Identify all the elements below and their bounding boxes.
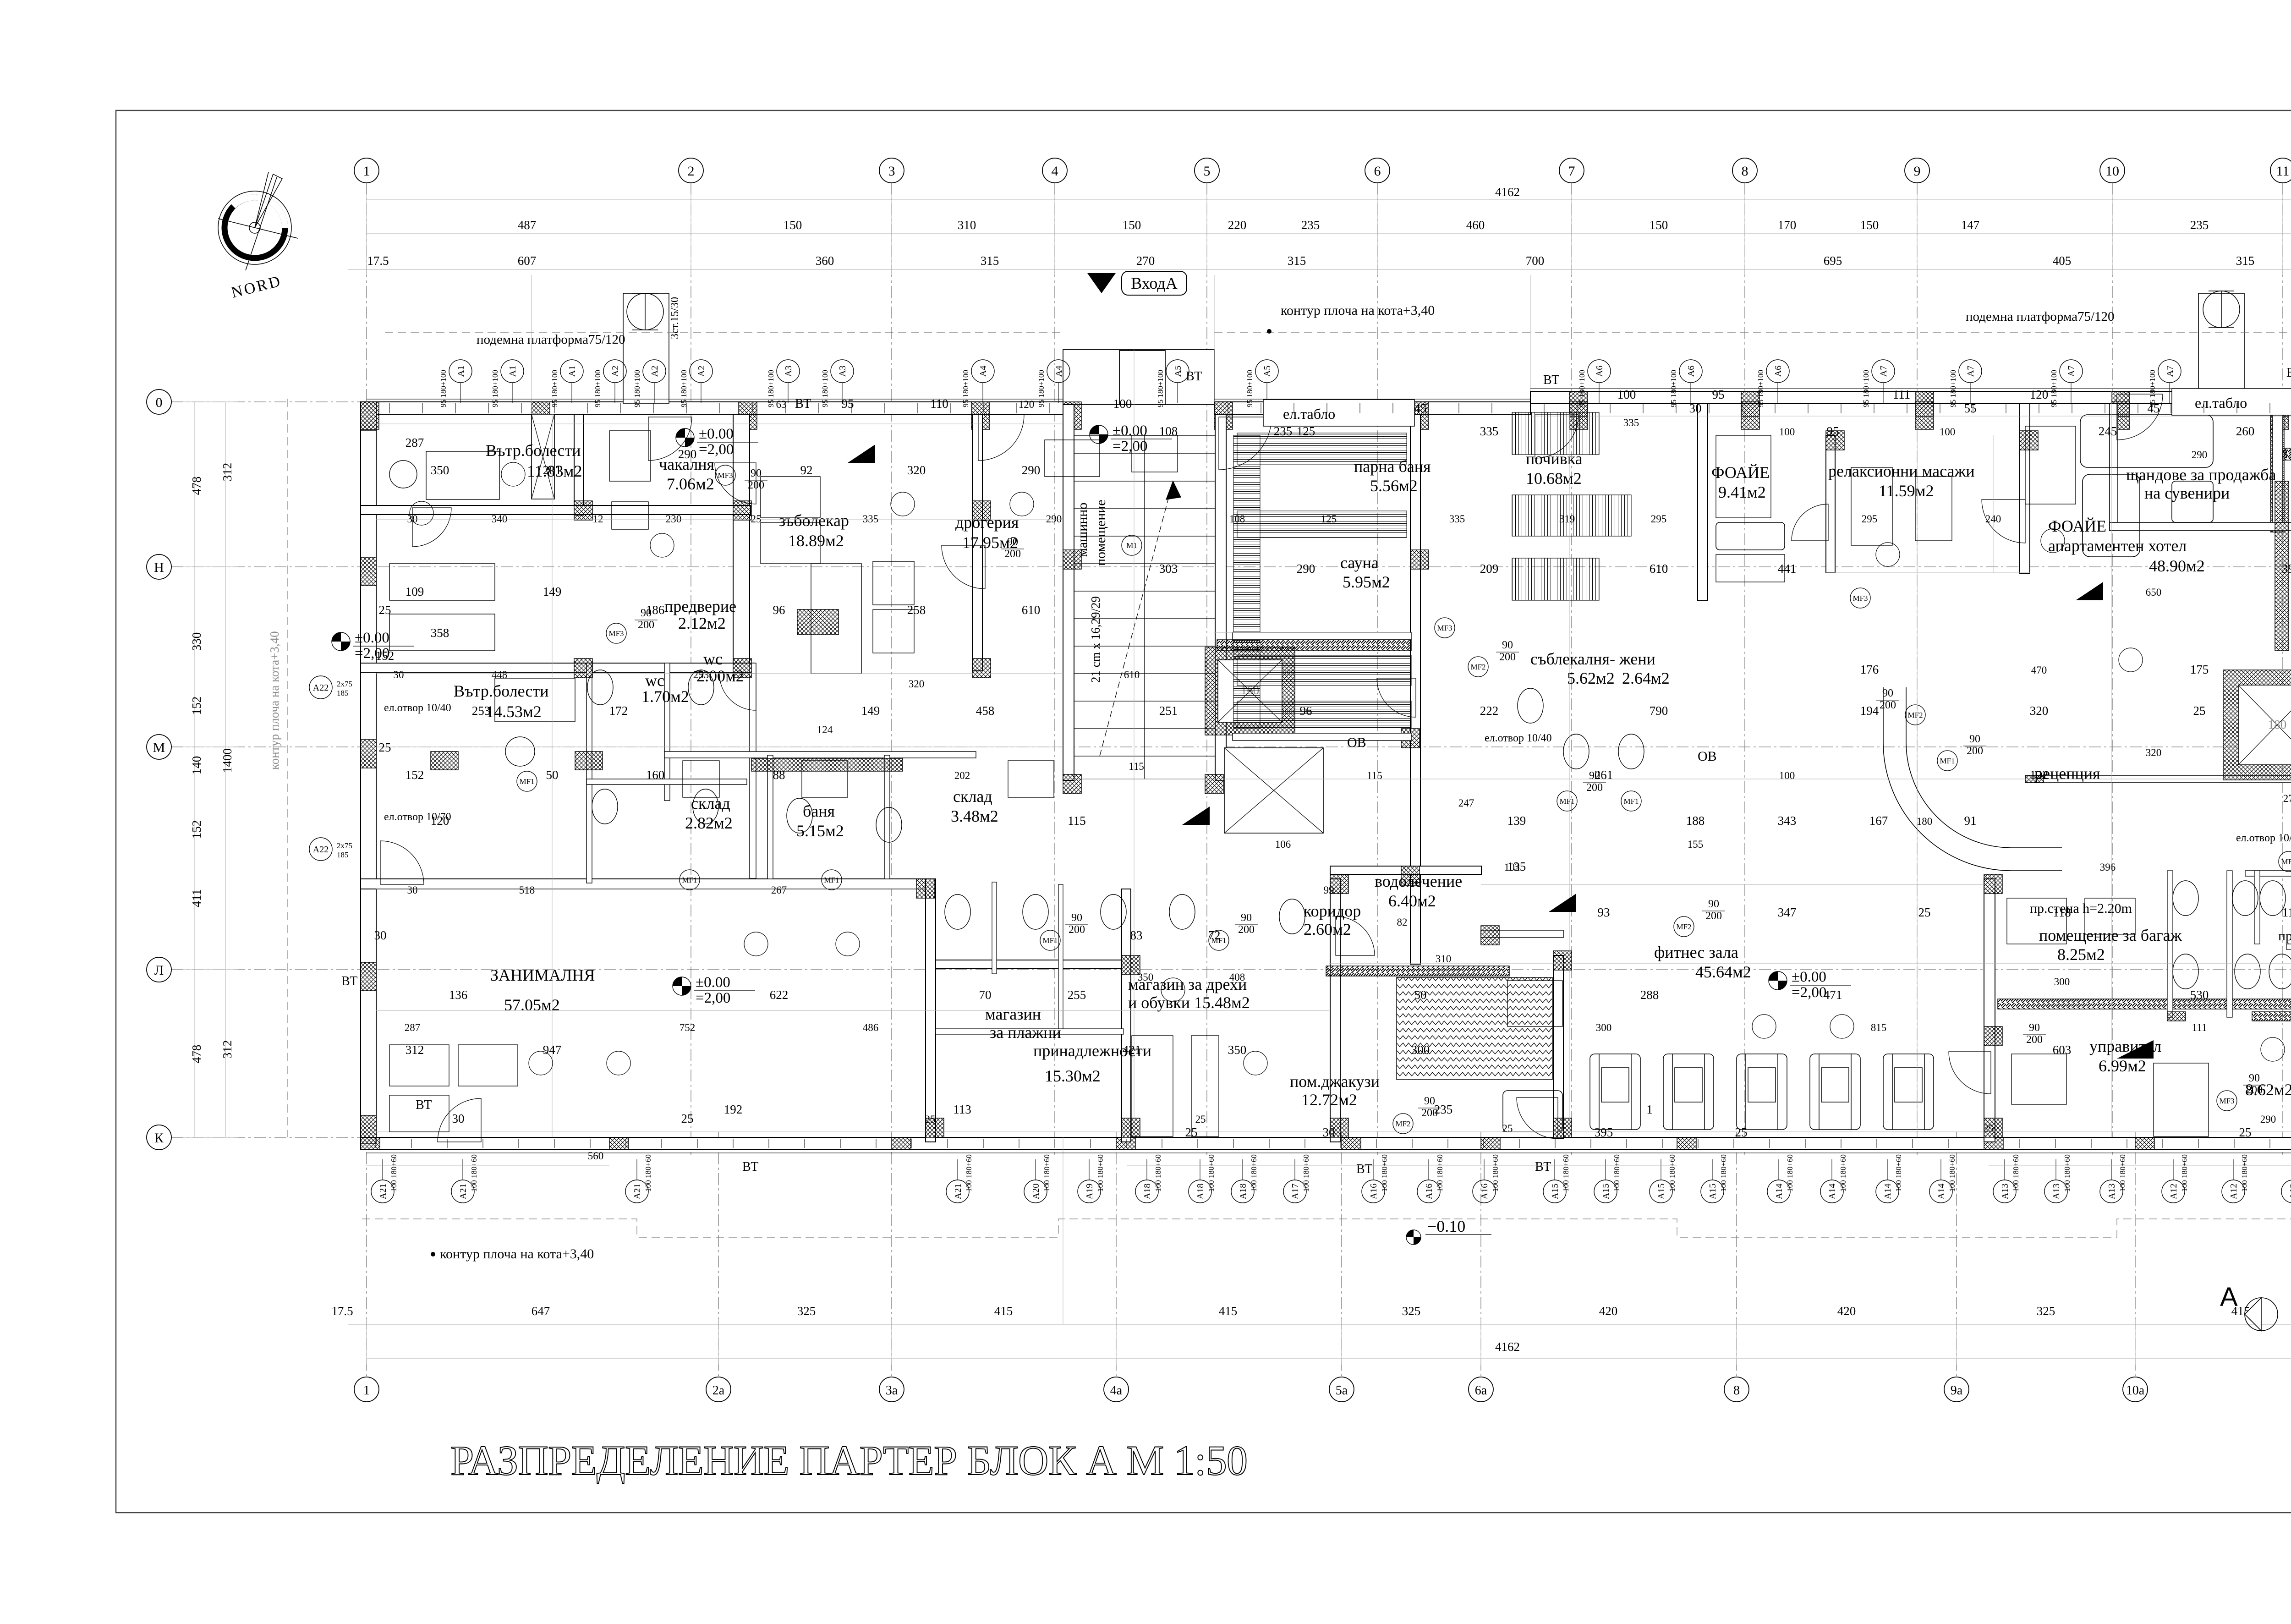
svg-text:ФОАЙЕ: ФОАЙЕ xyxy=(2048,517,2106,535)
svg-text:К: К xyxy=(154,1130,164,1146)
svg-text:склад: склад xyxy=(953,787,992,806)
svg-text:A: A xyxy=(2220,1282,2238,1312)
elevator shaft 3 xyxy=(2223,670,2291,780)
svg-text:2.82м2: 2.82м2 xyxy=(685,814,733,832)
svg-text:100 180+60: 100 180+60 xyxy=(470,1154,478,1192)
svg-text:109: 109 xyxy=(406,585,424,598)
svg-text:253: 253 xyxy=(693,669,709,680)
svg-text:303: 303 xyxy=(1159,562,1178,576)
svg-text:парна баня: парна баня xyxy=(1354,457,1431,476)
svg-text:1: 1 xyxy=(363,164,370,179)
svg-text:530: 530 xyxy=(2190,988,2209,1002)
svg-text:335: 335 xyxy=(1449,513,1465,525)
svg-text:25: 25 xyxy=(2239,1125,2252,1139)
svg-text:91: 91 xyxy=(1964,814,1977,828)
svg-text:РАЗПРЕДЕЛЕНИЕ ПАРТЕР БЛОК А: РАЗПРЕДЕЛЕНИЕ ПАРТЕР БЛОК А М 1:50 xyxy=(450,1437,1248,1484)
svg-text:=2,00: =2,00 xyxy=(1792,984,1826,1001)
svg-text:325: 325 xyxy=(1402,1304,1421,1318)
svg-text:MF3: MF3 xyxy=(608,629,624,638)
svg-text:176: 176 xyxy=(1860,663,1879,676)
svg-text:A14: A14 xyxy=(1774,1184,1784,1199)
svg-text:A2: A2 xyxy=(610,366,620,377)
svg-text:A12: A12 xyxy=(2288,1184,2291,1199)
svg-text:коридор: коридор xyxy=(1304,902,1361,920)
svg-text:wc: wc xyxy=(703,650,723,668)
svg-text:100: 100 xyxy=(1779,426,1795,438)
massage room left wall xyxy=(1826,435,1835,573)
jacuzzi pool zigzag xyxy=(1397,977,1552,1080)
svg-text:4a: 4a xyxy=(1110,1383,1123,1398)
svg-text:95 180+100: 95 180+100 xyxy=(680,370,688,407)
svg-text:9.41м2: 9.41м2 xyxy=(1718,483,1766,501)
svg-text:448: 448 xyxy=(492,669,508,680)
svg-text:45: 45 xyxy=(1414,401,1427,415)
svg-text:93: 93 xyxy=(1598,905,1610,919)
window dims bottom rotated xyxy=(389,1154,2291,1192)
svg-text:25: 25 xyxy=(751,513,762,525)
svg-text:185: 185 xyxy=(337,689,349,697)
svg-text:A1: A1 xyxy=(456,366,466,377)
svg-text:баня: баня xyxy=(803,802,835,820)
svg-text:A1: A1 xyxy=(567,366,577,377)
PK fire marks xyxy=(1182,807,1210,825)
svg-text:90: 90 xyxy=(1071,912,1082,924)
zanimalnya top wall xyxy=(361,879,936,889)
svg-text:420: 420 xyxy=(1599,1304,1618,1318)
MF door labels xyxy=(715,465,735,485)
svg-text:90: 90 xyxy=(1882,687,1893,699)
svg-text:155: 155 xyxy=(1688,839,1704,850)
clothes shop right wall xyxy=(1330,879,1340,1142)
door size fractions xyxy=(635,467,2291,1119)
wc corridor walls top-left block xyxy=(586,663,592,883)
extra furniture texture xyxy=(389,426,2291,1136)
room labels xyxy=(454,441,2291,1109)
svg-text:486: 486 xyxy=(863,1022,879,1033)
svg-text:235: 235 xyxy=(1274,424,1293,438)
svg-text:111: 111 xyxy=(2192,1022,2207,1033)
wall under top-left exam rooms xyxy=(361,505,751,515)
svg-text:25: 25 xyxy=(925,1114,936,1125)
svg-text:A21: A21 xyxy=(458,1184,468,1199)
svg-text:A19: A19 xyxy=(1085,1184,1095,1199)
svg-text:200: 200 xyxy=(638,619,654,631)
svg-text:пом.джакузи: пом.джакузи xyxy=(1290,1072,1380,1091)
svg-text:9a: 9a xyxy=(1951,1383,1963,1398)
svg-text:100 180+60: 100 180+60 xyxy=(1096,1154,1105,1192)
svg-text:108: 108 xyxy=(1229,513,1245,525)
svg-text:A13: A13 xyxy=(2051,1184,2061,1199)
svg-text:100: 100 xyxy=(1779,770,1795,781)
svg-text:A16: A16 xyxy=(1424,1184,1434,1199)
svg-text:−0.10: −0.10 xyxy=(1427,1217,1465,1235)
wall right of dentist xyxy=(972,414,982,671)
svg-text:287: 287 xyxy=(406,436,424,450)
svg-text:251: 251 xyxy=(1159,704,1178,718)
svg-text:95 180+100: 95 180+100 xyxy=(961,370,970,407)
rest room right wall xyxy=(1698,404,1708,601)
svg-text:120: 120 xyxy=(1019,399,1035,410)
svg-text:96: 96 xyxy=(1300,704,1312,718)
svg-text:335: 335 xyxy=(863,513,879,525)
svg-text:A1: A1 xyxy=(508,366,518,377)
svg-text:200: 200 xyxy=(2246,1084,2263,1096)
svg-text:A6: A6 xyxy=(1595,366,1605,377)
svg-text:MF1: MF1 xyxy=(824,876,839,884)
row grid bubbles left xyxy=(147,390,171,1150)
svg-text:152: 152 xyxy=(376,649,395,663)
svg-text:200: 200 xyxy=(1069,924,1085,936)
svg-text:45.64м2: 45.64м2 xyxy=(1695,963,1751,981)
svg-text:100 180+60: 100 180+60 xyxy=(2011,1154,2020,1192)
svg-text:ОВ: ОВ xyxy=(1347,735,1366,750)
svg-text:610: 610 xyxy=(1124,669,1140,680)
zanimalnya second door xyxy=(438,1098,481,1142)
svg-text:A4: A4 xyxy=(1054,366,1064,377)
svg-text:ВТ: ВТ xyxy=(1186,369,1202,384)
long corridor wall above manager rooms xyxy=(2025,775,2291,783)
storage bath row walls xyxy=(664,752,976,758)
svg-text:MF3: MF3 xyxy=(718,471,733,480)
svg-text:458: 458 xyxy=(976,704,995,718)
svg-text:склад: склад xyxy=(691,794,730,812)
entrance A label xyxy=(1087,271,1187,295)
svg-text:610: 610 xyxy=(1650,562,1668,576)
structural columns on right top wall xyxy=(1569,391,1588,417)
svg-text:на сувенири: на сувенири xyxy=(2144,484,2230,502)
svg-text:200: 200 xyxy=(1967,745,1983,757)
structural columns on top wall xyxy=(361,402,379,429)
svg-text:149: 149 xyxy=(861,704,880,718)
svg-text:Вътр.болести: Вътр.болести xyxy=(486,441,581,460)
svg-text:ел.табло: ел.табло xyxy=(2195,395,2247,411)
svg-text:194: 194 xyxy=(1860,704,1879,718)
svg-text:100 180+60: 100 180+60 xyxy=(1491,1154,1500,1192)
svg-text:100 180+60: 100 180+60 xyxy=(644,1154,652,1192)
svg-text:контур плоча на кота+3,40: контур плоча на кота+3,40 xyxy=(268,631,281,770)
svg-text:A16: A16 xyxy=(1480,1184,1490,1199)
svg-text:700: 700 xyxy=(1526,254,1545,268)
svg-text:±0.00: ±0.00 xyxy=(696,974,730,991)
svg-text:6: 6 xyxy=(1374,164,1381,179)
svg-text:90: 90 xyxy=(1007,536,1018,548)
svg-text:200: 200 xyxy=(1004,548,1021,560)
svg-text:235: 235 xyxy=(2190,218,2209,232)
svg-text:11: 11 xyxy=(2276,164,2290,179)
svg-text:MF1: MF1 xyxy=(1940,757,1955,765)
wc cluster bottom middle dividers xyxy=(992,882,997,974)
window sill labels bottom row xyxy=(371,1159,2291,1203)
svg-text:MF1: MF1 xyxy=(1042,936,1058,945)
svg-text:контур плоча на кота+3,40: контур плоча на кота+3,40 xyxy=(1281,303,1435,318)
chairs circles texture xyxy=(410,462,2291,1130)
svg-text:25: 25 xyxy=(2193,704,2206,718)
svg-text:1: 1 xyxy=(1646,1103,1653,1116)
svg-text:222: 222 xyxy=(1480,704,1499,718)
svg-text:1400: 1400 xyxy=(220,748,234,773)
svg-text:100 180+60: 100 180+60 xyxy=(1436,1154,1444,1192)
level marks xyxy=(676,426,758,458)
svg-text:25: 25 xyxy=(681,1112,694,1125)
svg-text:320: 320 xyxy=(2030,704,2049,718)
svg-text:30: 30 xyxy=(452,1112,465,1125)
svg-text:167: 167 xyxy=(1869,814,1888,828)
svg-text:A18: A18 xyxy=(1195,1184,1206,1199)
svg-text:MF2: MF2 xyxy=(1676,922,1691,931)
svg-text:3a: 3a xyxy=(886,1383,898,1398)
wall under exam room 2 xyxy=(361,663,755,672)
svg-text:предверие: предверие xyxy=(664,597,736,615)
svg-text:100 180+60: 100 180+60 xyxy=(1380,1154,1389,1192)
svg-text:122: 122 xyxy=(2030,768,2049,782)
reception curved desk xyxy=(1883,687,2062,871)
svg-text:±0.00: ±0.00 xyxy=(1792,969,1826,985)
svg-text:518: 518 xyxy=(519,884,535,896)
svg-text:8.25м2: 8.25м2 xyxy=(2057,945,2105,964)
svg-text:апартаментен хотел: апартаментен хотел xyxy=(2048,537,2187,555)
svg-text:MF1: MF1 xyxy=(1623,797,1639,806)
svg-text:7: 7 xyxy=(1568,164,1575,179)
svg-text:100 180+60: 100 180+60 xyxy=(1948,1154,1957,1192)
svg-text:A6: A6 xyxy=(1773,366,1783,377)
svg-text:113: 113 xyxy=(953,1103,971,1116)
svg-text:100: 100 xyxy=(1617,388,1636,401)
svg-text:50: 50 xyxy=(546,768,559,782)
svg-text:машинно: машинно xyxy=(1075,503,1090,557)
svg-text:175: 175 xyxy=(2190,663,2209,676)
structural columns on left wall xyxy=(361,402,376,430)
souvenir stand right wall xyxy=(2270,404,2284,532)
svg-text:415: 415 xyxy=(994,1304,1013,1318)
svg-text:2.64м2: 2.64м2 xyxy=(1622,669,1670,687)
svg-text:70: 70 xyxy=(979,988,992,1002)
svg-text:63: 63 xyxy=(776,399,787,410)
north arrow compass xyxy=(218,172,298,302)
kontur plocha dashed bottom xyxy=(362,1219,2291,1237)
window sill labels top row xyxy=(449,341,2291,403)
svg-text:M: M xyxy=(153,740,165,755)
window dims top rotated xyxy=(439,351,2291,407)
svg-text:MF3: MF3 xyxy=(1437,624,1452,632)
svg-text:100 180+60: 100 180+60 xyxy=(2118,1154,2127,1192)
svg-text:MF2: MF2 xyxy=(1470,663,1485,671)
svg-text:111: 111 xyxy=(2282,905,2291,919)
wall dimension numbers xyxy=(394,399,2291,1162)
svg-text:100 180+60: 100 180+60 xyxy=(1786,1154,1794,1192)
svg-text:411: 411 xyxy=(190,889,203,907)
svg-text:и обувки 15.48м2: и обувки 15.48м2 xyxy=(1128,993,1250,1012)
svg-text:82: 82 xyxy=(1397,916,1408,928)
svg-text:ВходА: ВходА xyxy=(1131,274,1177,292)
svg-text:95 180+100: 95 180+100 xyxy=(1037,370,1046,407)
svg-text:5: 5 xyxy=(1204,164,1211,179)
svg-text:752: 752 xyxy=(680,1022,696,1033)
foyer sofas xyxy=(1716,415,2213,557)
top dimension rows xyxy=(348,194,2291,275)
svg-text:100 180+60: 100 180+60 xyxy=(1668,1154,1677,1192)
svg-text:290: 290 xyxy=(1046,513,1062,525)
svg-text:30: 30 xyxy=(407,884,418,896)
predverie hatched walls xyxy=(797,609,839,635)
svg-text:7.06м2: 7.06м2 xyxy=(667,475,714,493)
svg-text:90: 90 xyxy=(1502,639,1513,651)
wc block bottom new masonry xyxy=(2252,1012,2291,1021)
svg-text:A2: A2 xyxy=(696,366,707,377)
svg-text:95 180+100: 95 180+100 xyxy=(633,370,641,407)
svg-text:290: 290 xyxy=(1297,562,1315,576)
top exterior wall mid section xyxy=(1214,402,1530,414)
svg-text:340: 340 xyxy=(492,513,508,525)
svg-text:M1: M1 xyxy=(1126,541,1137,550)
svg-text:441: 441 xyxy=(1778,562,1797,576)
staircase xyxy=(1074,435,1215,779)
stairs right wall xyxy=(1215,414,1226,781)
svg-text:100 180+60: 100 180+60 xyxy=(389,1154,398,1192)
svg-text:140: 140 xyxy=(190,756,203,775)
svg-text:335: 335 xyxy=(1623,417,1639,428)
service room area walls xyxy=(2110,404,2118,531)
svg-text:30: 30 xyxy=(1689,401,1702,415)
svg-text:315: 315 xyxy=(981,254,999,268)
svg-text:12: 12 xyxy=(593,513,603,525)
svg-text:209: 209 xyxy=(1480,562,1499,576)
svg-text:A7: A7 xyxy=(1966,366,1976,377)
window mullion ticks top wall xyxy=(376,403,2291,1148)
platform box B xyxy=(2198,293,2244,392)
svg-text:200: 200 xyxy=(1586,782,1603,794)
svg-text:395: 395 xyxy=(1595,1125,1613,1139)
luggage room bottom wall new masonry xyxy=(1998,999,2291,1009)
svg-text:25: 25 xyxy=(379,603,391,617)
svg-text:45: 45 xyxy=(2148,401,2160,415)
svg-text:2x75: 2x75 xyxy=(337,680,352,688)
svg-text:5.56м2: 5.56м2 xyxy=(1370,477,1418,495)
svg-text:83: 83 xyxy=(1130,928,1143,942)
svg-text:295: 295 xyxy=(1651,513,1667,525)
svg-text:11.59м2: 11.59м2 xyxy=(1879,482,1934,500)
svg-text:2a: 2a xyxy=(713,1383,725,1398)
svg-text:350: 350 xyxy=(431,463,449,477)
svg-text:A13: A13 xyxy=(2000,1184,2010,1199)
svg-text:магазин: магазин xyxy=(985,1005,1041,1023)
svg-text:185: 185 xyxy=(337,850,349,859)
svg-text:125: 125 xyxy=(1297,424,1315,438)
svg-text:сауна: сауна xyxy=(1340,554,1379,572)
svg-text:A7: A7 xyxy=(2066,366,2077,377)
water treatment top wall xyxy=(1330,866,1481,874)
svg-text:310: 310 xyxy=(958,218,976,232)
svg-text:щандове за продажба: щандове за продажба xyxy=(2126,466,2276,484)
svg-text:100 180+60: 100 180+60 xyxy=(1207,1154,1216,1192)
svg-text:17.5: 17.5 xyxy=(367,254,389,268)
svg-text:ВТ: ВТ xyxy=(1356,1162,1372,1176)
svg-text:310: 310 xyxy=(1436,953,1452,965)
svg-text:288: 288 xyxy=(1640,988,1659,1002)
svg-text:подемна платформа75/120: подемна платформа75/120 xyxy=(1966,309,2115,324)
svg-text:290: 290 xyxy=(2260,1114,2276,1125)
svg-text:2.12м2: 2.12м2 xyxy=(678,614,726,632)
svg-text:A14: A14 xyxy=(1827,1184,1837,1199)
svg-text:2.60м2: 2.60м2 xyxy=(1304,920,1351,938)
svg-text:A7: A7 xyxy=(1879,366,1889,377)
svg-text:115: 115 xyxy=(1367,770,1382,781)
svg-text:15.30м2: 15.30м2 xyxy=(1045,1067,1101,1085)
svg-text:180: 180 xyxy=(2268,718,2287,731)
svg-text:дрогерия: дрогерия xyxy=(955,513,1019,532)
svg-text:8: 8 xyxy=(1733,1383,1740,1398)
svg-text:603: 603 xyxy=(2053,1043,2072,1057)
svg-text:610: 610 xyxy=(1022,603,1041,617)
svg-text:420: 420 xyxy=(1837,1304,1856,1318)
svg-text:6a: 6a xyxy=(1475,1383,1487,1398)
svg-text:200: 200 xyxy=(1705,910,1722,922)
svg-text:=2,00: =2,00 xyxy=(696,990,730,1006)
svg-text:95 180+100: 95 180+100 xyxy=(593,370,602,407)
svg-text:325: 325 xyxy=(2037,1304,2055,1318)
kontur plocha dashed top xyxy=(385,332,1063,333)
svg-text:300: 300 xyxy=(1411,1043,1430,1057)
svg-text:396: 396 xyxy=(2100,861,2116,873)
svg-text:247: 247 xyxy=(1458,797,1474,809)
svg-text:2x75: 2x75 xyxy=(337,841,352,850)
svg-text:A16: A16 xyxy=(1369,1184,1379,1199)
svg-text:287: 287 xyxy=(405,1022,421,1033)
svg-text:100 180+60: 100 180+60 xyxy=(2180,1154,2189,1192)
svg-text:3: 3 xyxy=(888,164,895,179)
svg-text:115: 115 xyxy=(1129,761,1144,772)
svg-text:150: 150 xyxy=(1860,218,1879,232)
svg-text:360: 360 xyxy=(816,254,834,268)
svg-text:230: 230 xyxy=(666,513,682,525)
svg-text:95 180+100: 95 180+100 xyxy=(550,370,559,407)
svg-text:A15: A15 xyxy=(1708,1184,1718,1199)
svg-text:152: 152 xyxy=(190,820,203,839)
wc fixtures xyxy=(587,670,2291,989)
svg-text:100 180+60: 100 180+60 xyxy=(1894,1154,1903,1192)
platform box A xyxy=(623,293,669,403)
column grid axis lines xyxy=(367,183,2291,1377)
svg-text:100 180+60: 100 180+60 xyxy=(1302,1154,1310,1192)
svg-text:92: 92 xyxy=(800,463,813,477)
svg-text:320: 320 xyxy=(909,678,925,690)
svg-text:192: 192 xyxy=(724,1103,743,1116)
svg-text:A15: A15 xyxy=(1601,1184,1611,1199)
svg-text:815: 815 xyxy=(1871,1022,1887,1033)
svg-text:200: 200 xyxy=(1499,651,1516,663)
svg-text:790: 790 xyxy=(1650,704,1668,718)
svg-text:A15: A15 xyxy=(1550,1184,1560,1199)
svg-text:253: 253 xyxy=(472,704,491,718)
svg-text:136: 136 xyxy=(449,988,468,1002)
luggage room left wall xyxy=(1984,879,1995,1142)
svg-text:260: 260 xyxy=(2236,424,2255,438)
svg-text:Л: Л xyxy=(154,963,164,978)
svg-text:ел.отвор 10/40: ел.отвор 10/40 xyxy=(1485,732,1552,744)
svg-text:ОВ: ОВ xyxy=(1698,749,1717,764)
svg-text:25: 25 xyxy=(1984,1123,1994,1134)
svg-text:607: 607 xyxy=(518,254,537,268)
svg-text:100 180+60: 100 180+60 xyxy=(1719,1154,1728,1192)
svg-text:=2,00: =2,00 xyxy=(1113,438,1147,455)
svg-text:5a: 5a xyxy=(1336,1383,1348,1398)
svg-text:±0.00: ±0.00 xyxy=(355,630,389,646)
svg-text:99: 99 xyxy=(1324,884,1334,896)
svg-text:111: 111 xyxy=(1893,388,1911,401)
svg-text:290: 290 xyxy=(678,447,697,461)
svg-text:5.15м2: 5.15м2 xyxy=(796,822,844,840)
svg-text:90: 90 xyxy=(751,467,762,479)
svg-text:5.62м2: 5.62м2 xyxy=(1567,669,1615,687)
